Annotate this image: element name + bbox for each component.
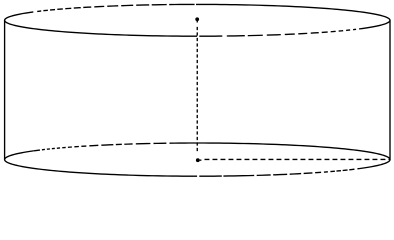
dashed axis line between top and bottom centers xyxy=(196,27,198,153)
top ellipse solid arc over left tip (front-left and rear tip piece) xyxy=(5,12,197,36)
right side line of cylinder xyxy=(389,20,391,159)
top ellipse dashed front-right arc xyxy=(199,29,359,36)
bottom ellipse solid arc over left tip (front-left and rear tip piece) xyxy=(5,151,197,176)
bottom ellipse dashed front-right arc xyxy=(199,168,360,176)
top ellipse dashed rear-left arc xyxy=(33,4,194,12)
left side line of cylinder xyxy=(4,20,6,159)
radius stub right of bottom center dot xyxy=(200,159,202,161)
top ellipse solid arc from right-front over right tip and rear apex xyxy=(196,4,390,28)
bottom ellipse solid arc from right-front over right tip and rear xyxy=(170,143,391,168)
bottom ellipse dashed rear-left arc (hidden edge) xyxy=(33,143,166,151)
dashed radius line from bottom center to right tip xyxy=(205,158,390,160)
bottom center dot xyxy=(196,158,200,162)
axis stub below top center dot xyxy=(196,21,198,23)
top center dot xyxy=(195,17,199,21)
